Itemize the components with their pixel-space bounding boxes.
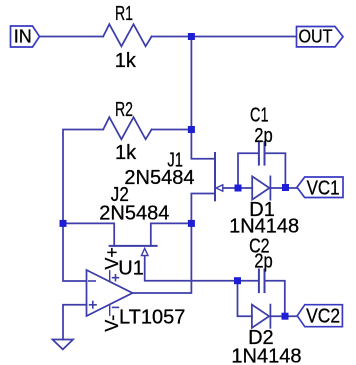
- svg-text:IN: IN: [14, 26, 32, 46]
- svg-text:VC2: VC2: [306, 306, 340, 328]
- svg-text:2N5484: 2N5484: [99, 203, 169, 225]
- svg-text:1N4148: 1N4148: [231, 345, 301, 365]
- svg-text:V+: V+: [102, 247, 122, 270]
- svg-text:R1: R1: [115, 3, 133, 25]
- svg-text:2p: 2p: [254, 251, 273, 273]
- svg-text:2p: 2p: [254, 125, 273, 147]
- svg-text:R2: R2: [115, 99, 133, 121]
- svg-text:U1: U1: [118, 257, 144, 279]
- svg-text:OUT: OUT: [299, 26, 333, 46]
- svg-text:V-: V-: [102, 315, 122, 332]
- svg-text:1N4148: 1N4148: [229, 215, 299, 237]
- svg-text:VC1: VC1: [307, 178, 340, 200]
- svg-text:1k: 1k: [115, 50, 137, 72]
- svg-text:C1: C1: [250, 105, 269, 127]
- svg-text:1k: 1k: [115, 142, 137, 164]
- svg-text:LT1057: LT1057: [119, 307, 185, 329]
- svg-text:2N5484: 2N5484: [124, 167, 194, 189]
